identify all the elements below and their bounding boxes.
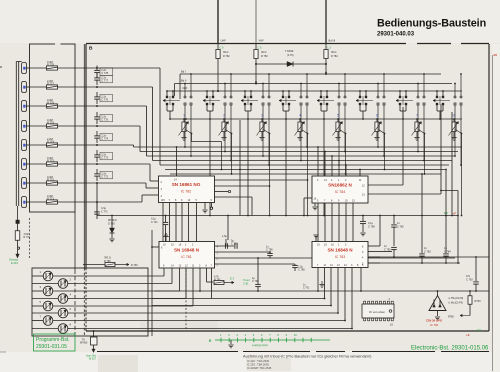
VHF feed line top [255, 0, 257, 43]
svg-text:T DF99: T DF99 [285, 50, 294, 53]
wire switch S1 down [184, 112, 186, 147]
IC784 pin 15 bottom [352, 203, 354, 242]
capacitor C786 [294, 264, 296, 265]
connector contact 3 [22, 101, 27, 112]
ground near C791 [321, 281, 323, 284]
capacitor C 775 2,2n [96, 112, 98, 117]
IC U781 SN 16848 N [159, 242, 215, 269]
wire row 6 to IC782 pin 2 [97, 163, 150, 165]
wire wiper P6 [384, 134, 386, 170]
regulator bottom lead [437, 311, 439, 317]
connector contact 7 [22, 178, 27, 189]
svg-text:Bedienungs-Baustein: Bedienungs-Baustein [377, 18, 486, 30]
svg-text:C 5: C 5 [258, 47, 263, 50]
svg-text:SN16862 N: SN16862 N [328, 182, 352, 187]
regulator top lead [437, 291, 439, 296]
resistor R782 39 Ohm [217, 43, 219, 91]
svg-text:IC 790: IC 790 [430, 323, 439, 327]
svg-text:R 784: R 784 [331, 55, 338, 58]
wiper rail 7 [170, 173, 441, 175]
capacitor C798 0.1u [362, 215, 364, 217]
IC782 pin 9 bottom [181, 203, 183, 242]
wire wiper P4 [307, 134, 309, 216]
svg-text:IC 253 : TBA 2630: IC 253 : TBA 2630 [247, 362, 269, 366]
connector contact 5 [22, 140, 27, 151]
svg-text:IC 784: IC 784 [335, 190, 346, 194]
svg-text:IC 22028: TDA 2635: IC 22028: TDA 2635 [247, 366, 272, 370]
bus wire Bd II [175, 83, 453, 85]
IC784 pin 16 left [304, 197, 312, 199]
svg-text:C 793: C 793 [466, 278, 473, 281]
wire row 1 to rail [97, 67, 160, 69]
connector contact 2 [22, 82, 27, 93]
IC784 ground pin [314, 203, 316, 206]
svg-text:39 Ω: 39 Ω [331, 51, 336, 54]
svg-text:C 796: C 796 [266, 249, 273, 252]
svg-text:Programm-Bst.: Programm-Bst. [36, 337, 70, 343]
control rail 5 [134, 146, 463, 148]
connector contact 8 [22, 197, 27, 208]
wire knob 4 [68, 298, 70, 300]
preset knob 4 [58, 294, 68, 304]
svg-text:C 771: C 771 [101, 210, 108, 213]
green program label box [34, 334, 76, 351]
pushbutton switch S8 [436, 96, 438, 98]
IC781 pin 6 left [152, 246, 159, 248]
wire knob 5 [53, 305, 70, 307]
horizontal rail y215 [97, 215, 458, 217]
svg-text:SN 16861 NO: SN 16861 NO [172, 182, 201, 187]
box right edge extension [74, 212, 76, 270]
svg-text:C 776: C 776 [101, 98, 108, 102]
coupling dashed line A [74, 270, 76, 336]
left connector strip rails [15, 62, 17, 207]
capacitor C780 1n [393, 216, 395, 225]
IC784 pin 8 bottom [331, 203, 333, 242]
svg-text:39 Ω: 39 Ω [223, 51, 228, 54]
svg-text:IC 781: IC 781 [181, 255, 192, 259]
svg-text:C 791: C 791 [303, 288, 310, 290]
pushbutton switch S3 [244, 96, 246, 98]
svg-text:IC von oben: IC von oben [369, 310, 386, 314]
svg-text:Bd I/II: Bd I/II [329, 39, 336, 43]
wire wiper P7 [424, 134, 426, 175]
svg-text:R780: R780 [448, 316, 454, 319]
preset knob 7 [43, 316, 53, 326]
pushbutton switch S2 [206, 96, 208, 98]
svg-text:C 782: C 782 [384, 248, 391, 251]
page edge tick [0, 66, 2, 68]
inner frame line [83, 44, 85, 268]
IC782 pin 10 bottom [188, 203, 190, 242]
preset knob 5 [43, 301, 53, 311]
corner mark bottom left [0, 351, 6, 353]
dashed frame left lower [185, 270, 187, 330]
connector contact 6 [22, 159, 27, 170]
wire knob 8 to right [70, 328, 352, 330]
IC781 right pin wires [215, 245, 235, 247]
wire switch S3 down [262, 112, 264, 156]
svg-text:C 780: C 780 [397, 225, 404, 228]
rail y298.5 [152, 298, 325, 300]
IC784 pin 3 top [317, 147, 319, 176]
wire wiper P3 [269, 134, 271, 216]
wire group8 down to rail y215 [451, 112, 453, 216]
IC784 pin 9 bottom [338, 203, 340, 242]
IC782 pin open circle [211, 203, 213, 208]
bus x152 [151, 230, 153, 336]
wire knob 3 [53, 290, 70, 292]
wire wiper P1 [191, 134, 193, 142]
svg-text:SN 16848 N: SN 16848 N [327, 248, 353, 253]
junction dots [217, 90, 219, 92]
svg-text:C 778: C 778 [101, 71, 108, 75]
wire knob 6 to right [70, 312, 338, 314]
main frame border [86, 43, 406, 45]
wire switch S4 down [300, 112, 302, 161]
svg-text:29301-040.03: 29301-040.03 [377, 32, 415, 38]
svg-text:C 798: C 798 [368, 225, 375, 228]
svg-text:+F: +F [453, 211, 457, 215]
svg-text:UHF: UHF [221, 39, 227, 43]
svg-text:3,5M: 3,5M [24, 234, 29, 236]
wire knob 1 [53, 275, 70, 277]
svg-text:SN 16848 N: SN 16848 N [174, 248, 200, 253]
IC782 pin 15 bottom [162, 203, 164, 242]
wire switch S8 down [454, 112, 456, 156]
svg-text:E 5: E 5 [477, 329, 481, 332]
transistor TA component [91, 337, 98, 345]
ground above IC781 pin10 [165, 237, 167, 242]
control rail 1 [160, 164, 449, 166]
wire knob 6 [68, 312, 70, 314]
left resistor R770 [17, 224, 19, 231]
preset knob 3 [43, 286, 53, 296]
wire switch column to rail y215 [405, 111, 407, 216]
svg-text:Electronic-Bst. 29301-015.06: Electronic-Bst. 29301-015.06 [411, 346, 489, 352]
net arrow R780 [460, 315, 470, 317]
wire switch column to rail y215 [326, 111, 328, 216]
svg-text:C 9: C 9 [220, 47, 225, 50]
coupling dashed line B [83, 268, 85, 336]
wire row 4 to rail [97, 125, 140, 127]
rail y291 supply [155, 290, 489, 292]
svg-text:C 784: C 784 [444, 250, 451, 253]
resistor R784 39 Ohm [325, 43, 327, 73]
IC U784 SN16862 N [312, 176, 368, 203]
input resistor box outline [30, 44, 76, 212]
wire wiper P5 [345, 134, 347, 175]
IC782 pin 7 bottom [169, 203, 171, 242]
wire switch column to rail y215 [365, 111, 367, 216]
svg-text:+6: +6 [466, 333, 470, 337]
connector contact 1 [22, 63, 27, 74]
svg-text:C 777: C 777 [101, 79, 108, 83]
wire knob 7 [53, 320, 70, 322]
dashed coupling line left [29, 218, 31, 258]
resistor R783 39 Ohm [255, 43, 257, 83]
wire x458 down [457, 216, 459, 264]
IC784 pin 5 bottom [317, 203, 319, 242]
wire knob 8 [68, 328, 70, 330]
svg-text:C 772: C 772 [101, 175, 108, 179]
wire switch S5 down [338, 112, 340, 165]
pushbutton switch S7 [399, 96, 401, 98]
IC784 pin 10 bottom [345, 203, 347, 242]
wire knob 7 to right [70, 320, 345, 322]
svg-text:C 774: C 774 [101, 137, 108, 141]
IC784 pin 14 top [324, 152, 326, 177]
wire switch S2 down [224, 112, 226, 152]
IC784 pin 7 bottom [324, 203, 326, 242]
svg-text:E 601: E 601 [11, 261, 18, 265]
svg-text:IC 782: IC 782 [181, 189, 192, 193]
svg-text:E 3: E 3 [230, 277, 234, 281]
wire IC783 pin5 up [360, 268, 362, 292]
capacitor C 772 2,2n [96, 169, 98, 174]
svg-text:Tuner: Tuner [243, 278, 250, 282]
svg-text:Bi 627: Bi 627 [89, 358, 97, 361]
preset knob 6 [58, 308, 68, 318]
svg-text:C 741: C 741 [151, 221, 158, 224]
svg-text:C 783: C 783 [424, 250, 431, 253]
IC784 pin 13 right [368, 193, 441, 195]
wire switch S7 down [417, 112, 419, 152]
svg-text:IC 222 : TDA 2630: IC 222 : TDA 2630 [247, 359, 270, 363]
IC783 right pin wires [368, 245, 380, 247]
wire row 5 to rail [97, 144, 134, 146]
IC782 right pin wires [215, 179, 308, 181]
IC784 pin 2 top [345, 165, 347, 176]
svg-text:Bd II: Bd II [181, 78, 187, 82]
IC782 pin 14 top [176, 147, 178, 176]
preset knob 2 [58, 279, 68, 289]
IC782 pin 8 bottom [175, 203, 177, 242]
svg-text:R 782: R 782 [223, 55, 230, 58]
svg-text:C 775: C 775 [101, 118, 108, 122]
node square [17, 206, 19, 220]
svg-text:29301-031.05: 29301-031.05 [36, 344, 67, 350]
IC U782 SN 16861 NO [159, 176, 215, 203]
svg-text:(b 76): (b 76) [287, 54, 294, 57]
wire cap column down [96, 183, 98, 216]
svg-text:1,5μ: 1,5μ [222, 235, 227, 238]
IC784 pin 4 top [331, 156, 333, 176]
svg-text:R 783: R 783 [261, 55, 268, 58]
svg-text:VHF: VHF [259, 39, 265, 43]
control rail 4 [140, 151, 458, 153]
Band I/II feed line top [325, 0, 327, 43]
IC U783 SN 16848 N [312, 242, 368, 268]
control rail 2 [153, 160, 453, 162]
svg-text:Ausführung mit Inbus-IC (Pro B: Ausführung mit Inbus-IC (Pro Baustein nu… [243, 353, 372, 358]
wire row 2 to rail [97, 86, 153, 88]
capacitor C 773 2,2n [96, 150, 98, 155]
resistor R781 4.7k [207, 281, 214, 283]
wire +F riser [441, 190, 458, 192]
wire wiper P2 [231, 134, 233, 175]
wire row 8 to IC782 pin 4 [97, 201, 142, 203]
wire wiper P8 [461, 134, 463, 216]
svg-text:C 773: C 773 [101, 156, 108, 160]
svg-text:C 81: C 81 [243, 282, 249, 286]
green row ground [230, 340, 232, 344]
capacitor C741 0.1u [165, 215, 167, 217]
svg-text:B: B [89, 46, 93, 52]
trimmer top rail y119 [170, 118, 462, 120]
pushbutton switch S4 [282, 96, 284, 98]
preset knob 8 [58, 324, 68, 334]
wiper rail 6 [165, 169, 445, 171]
svg-text:M7905: M7905 [80, 342, 88, 345]
right page edge line [492, 55, 494, 371]
svg-text:R 790: R 790 [131, 264, 138, 267]
red registration tick [494, 54, 498, 56]
regulator IC790 triangle [429, 296, 446, 311]
svg-text:IC 783: IC 783 [335, 255, 346, 259]
pushbutton switch S1 [166, 96, 168, 98]
svg-text:a: TB+(Cb Dfl): a: TB+(Cb Dfl) [449, 298, 464, 300]
wire knob 2 [68, 283, 70, 285]
wire switch column to rail y215 [288, 111, 290, 216]
IC783 ground pin [315, 236, 317, 242]
pushbutton switch S5 [320, 96, 322, 98]
IC784 pin 12 right [368, 184, 403, 186]
IC784 pin 1 top [338, 161, 340, 177]
wire row 3 to rail [97, 105, 147, 107]
IC782 pin 6 ground [204, 203, 206, 210]
svg-text:a-g(à-g) p(u)m: a-g(à-g) p(u)m [252, 344, 268, 347]
IC782 pin 5 bottom [196, 203, 198, 242]
wire x228 down [227, 216, 229, 241]
bottom separator dashed line [97, 351, 238, 353]
UHF feed line top [217, 0, 219, 43]
capacitor C 778 2,2n [96, 66, 98, 71]
control rail 3 [147, 155, 456, 157]
bus wire Bd I [180, 73, 441, 75]
capacitor C 774 2,2n [96, 131, 98, 136]
knob rail left [69, 276, 71, 325]
program knob box [32, 268, 148, 336]
svg-text:b: Mq (Cb Pfl): b: Mq (Cb Pfl) [449, 303, 463, 305]
rail y305.5 [152, 305, 331, 307]
svg-text:39 Ω: 39 Ω [261, 51, 266, 54]
svg-text:R793: R793 [475, 300, 482, 303]
capacitor C 776 2,2n [96, 92, 98, 97]
wire switch S6 down [377, 112, 379, 147]
capacitor C 777 2,2n [96, 73, 98, 78]
svg-text:C 786: C 786 [298, 269, 305, 272]
pushbutton switch S6 [359, 96, 361, 98]
resistor R793 [469, 291, 471, 296]
bus wire UHF [167, 90, 462, 92]
IC784 pin 11 top [359, 170, 361, 177]
connector contact 4 [22, 121, 27, 132]
wire row 7 to IC782 pin 3 [97, 182, 146, 184]
DIP IC von oben [362, 304, 394, 318]
svg-text:Bd I: Bd I [181, 69, 186, 73]
wire switch column to rail y215 [442, 111, 444, 216]
preset knob 1 [43, 271, 53, 281]
